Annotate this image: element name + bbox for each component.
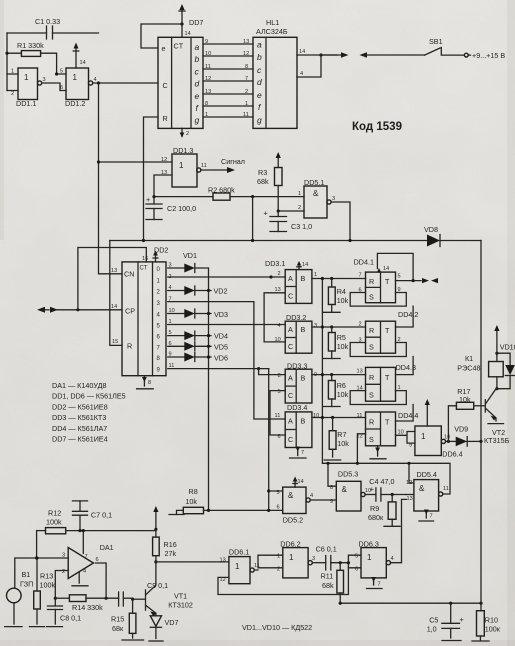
svg-text:8: 8 xyxy=(278,373,281,379)
svg-text:1: 1 xyxy=(73,73,78,82)
svg-text:e: e xyxy=(257,90,262,100)
wire DD4.4 out to DD6.4 inputs xyxy=(396,432,415,444)
power pin of DD2 xyxy=(153,251,158,262)
wire DD7 R to reset bus xyxy=(144,117,159,241)
svg-text:9: 9 xyxy=(330,499,333,505)
svg-text:CP: CP xyxy=(125,307,135,316)
svg-text:К1: К1 xyxy=(465,354,473,363)
svg-text:68k: 68k xyxy=(322,581,334,590)
transistor VT1 xyxy=(146,562,193,616)
svg-text:5: 5 xyxy=(355,554,358,560)
wire bus down to DD2 R xyxy=(110,241,122,346)
svg-text:S: S xyxy=(369,435,374,444)
diode VD7 xyxy=(149,613,178,641)
svg-text:3: 3 xyxy=(312,556,315,562)
svg-text:8: 8 xyxy=(245,64,248,70)
svg-text:13: 13 xyxy=(357,369,363,375)
svg-text:КТ3102: КТ3102 xyxy=(168,601,193,610)
svg-text:10: 10 xyxy=(444,435,450,441)
svg-text:&: & xyxy=(419,484,425,493)
svg-text:1,0: 1,0 xyxy=(427,625,437,634)
wire row DD3.2 out to DD4.2 R xyxy=(312,326,366,328)
display HL1 АЛС324Б xyxy=(253,18,297,128)
svg-text:2: 2 xyxy=(278,271,281,277)
svg-text:13: 13 xyxy=(205,89,211,95)
svg-text:DD5.2: DD5.2 xyxy=(283,516,303,525)
op-amp DA1 xyxy=(62,529,114,579)
svg-text:DD3.4: DD3.4 xyxy=(287,403,307,412)
svg-text:13: 13 xyxy=(407,496,413,502)
svg-text:VD7: VD7 xyxy=(165,618,179,627)
svg-text:4: 4 xyxy=(391,556,394,562)
resistor R9 xyxy=(368,495,400,527)
diode VD4 xyxy=(168,331,228,340)
wire DD6.1 lower input loop xyxy=(218,568,348,595)
svg-text:АЛС324Б: АЛС324Б xyxy=(256,27,288,36)
svg-text:R: R xyxy=(369,373,374,382)
svg-text:DA1: DA1 xyxy=(100,543,114,552)
svg-text:7: 7 xyxy=(245,76,248,82)
node R1/C1 junction xyxy=(5,52,8,55)
svg-text:14: 14 xyxy=(80,60,86,66)
power arrow above R16 xyxy=(153,506,158,512)
wire DD4.3 S feedback loop xyxy=(350,391,406,405)
svg-text:10: 10 xyxy=(398,430,404,436)
svg-text:10k: 10k xyxy=(337,296,349,305)
svg-text:C1 0.33: C1 0.33 xyxy=(35,17,60,26)
diode VD8 xyxy=(424,225,481,247)
svg-text:CN: CN xyxy=(124,270,134,279)
capacitor C9 xyxy=(119,581,169,606)
inverter DD1.1 xyxy=(7,68,46,108)
svg-text:d: d xyxy=(257,77,262,87)
svg-text:3: 3 xyxy=(43,77,46,83)
svg-text:9: 9 xyxy=(409,443,412,449)
svg-text:b: b xyxy=(257,52,262,62)
svg-text:DD4 — К561ЛА7: DD4 — К561ЛА7 xyxy=(52,424,107,433)
svg-text:14: 14 xyxy=(185,31,191,37)
svg-text:ГЗП: ГЗП xyxy=(20,580,33,589)
svg-text:R7: R7 xyxy=(337,430,346,439)
svg-text:5: 5 xyxy=(278,389,281,395)
counter DD2 xyxy=(111,246,168,376)
wire DA1 out down to R14/C9 row xyxy=(96,563,107,598)
capacitor C3 xyxy=(264,209,313,232)
svg-text:R3: R3 xyxy=(258,168,267,177)
svg-text:6: 6 xyxy=(96,557,99,563)
svg-text:R14 330k: R14 330k xyxy=(72,603,103,612)
svg-text:VD5: VD5 xyxy=(214,343,228,352)
node A (osc out) xyxy=(97,81,100,84)
wire DD4.1 out with break arrows xyxy=(396,280,422,282)
power pin 14 of DD7 xyxy=(179,4,191,37)
gate DD6.2 xyxy=(277,540,315,578)
svg-text:DD3 — К561КТ3: DD3 — К561КТ3 xyxy=(52,413,106,422)
diode VD3 xyxy=(168,309,228,319)
svg-text:16: 16 xyxy=(142,256,148,262)
svg-text:C9 0,1: C9 0,1 xyxy=(147,581,168,590)
resistor R6 xyxy=(324,375,349,407)
svg-text:DD5.4: DD5.4 xyxy=(417,470,437,479)
svg-text:B: B xyxy=(301,374,306,383)
svg-text:В1: В1 xyxy=(22,570,31,579)
wire DD5.4 upper input from bus xyxy=(409,463,414,483)
svg-text:R: R xyxy=(127,342,132,351)
wire E-loop to supply xyxy=(141,24,182,48)
svg-text:R: R xyxy=(369,418,374,427)
wire C-chain DD3.1 to DD3.2 xyxy=(264,293,285,342)
svg-text:C: C xyxy=(288,292,293,301)
wire row DD3.1 out to DD4.1 R xyxy=(312,278,366,280)
svg-text:R: R xyxy=(369,277,374,286)
svg-text:5: 5 xyxy=(398,274,401,280)
wire R3 to DD5.1 pin2 xyxy=(278,210,304,212)
svg-text:S: S xyxy=(369,293,374,302)
svg-text:5: 5 xyxy=(277,490,280,496)
svg-text:T: T xyxy=(385,373,390,382)
svg-text:R: R xyxy=(369,326,374,335)
svg-text:11: 11 xyxy=(275,413,281,419)
ground below C3 xyxy=(270,231,287,233)
gate DD5.2 xyxy=(277,487,314,524)
svg-text:A: A xyxy=(288,417,293,426)
svg-text:13: 13 xyxy=(243,39,249,45)
svg-text:R9: R9 xyxy=(370,504,379,513)
power pin 14 of DD5.2 xyxy=(293,477,304,488)
svg-text:C5: C5 xyxy=(429,616,438,625)
svg-text:7: 7 xyxy=(359,273,362,279)
capacitor C5 xyxy=(427,603,464,640)
svg-text:2: 2 xyxy=(298,205,301,211)
svg-text:10k: 10k xyxy=(337,439,349,448)
svg-text:C: C xyxy=(288,342,293,351)
switch DD3.4 xyxy=(275,403,320,448)
svg-text:Код 1539: Код 1539 xyxy=(352,121,402,133)
resistor R14 xyxy=(55,595,118,612)
svg-text:DD5.3: DD5.3 xyxy=(338,470,358,479)
wire right rail down xyxy=(480,241,482,604)
capacitor C8 xyxy=(47,598,82,626)
svg-text:R15: R15 xyxy=(111,615,124,624)
svg-text:DD2 — К561ИЕ8: DD2 — К561ИЕ8 xyxy=(52,402,108,411)
resistor R8 xyxy=(169,487,283,515)
ground pin 7 of DD6.3 xyxy=(367,577,383,589)
microphone B1 xyxy=(5,558,68,627)
svg-text:C7 0,1: C7 0,1 xyxy=(91,511,112,520)
wire row3 (out 3) to DD3.4 A xyxy=(168,302,285,419)
svg-text:2: 2 xyxy=(245,89,248,95)
svg-text:&: & xyxy=(342,485,348,494)
svg-text:1: 1 xyxy=(179,161,184,170)
wire DD4.2 out link up xyxy=(396,306,414,327)
wire pin13 xyxy=(154,175,172,204)
ground pin of DD4.4 xyxy=(370,446,386,459)
svg-text:+9...+15 В: +9...+15 В xyxy=(472,51,505,60)
svg-text:T: T xyxy=(385,277,390,286)
svg-text:6: 6 xyxy=(277,505,280,511)
wire row9 (out 9) to DD3.3 A and DD5.2 xyxy=(168,368,269,370)
svg-text:S: S xyxy=(369,343,374,352)
diode VD9 xyxy=(454,425,482,447)
svg-text:1: 1 xyxy=(235,562,240,571)
wire break arrows xyxy=(321,54,341,56)
svg-text:DD7 — К561ИЕ4: DD7 — К561ИЕ4 xyxy=(52,435,108,444)
wire DD4.1 top loop xyxy=(377,253,413,280)
wire DD4.3 out link up xyxy=(396,357,414,375)
svg-text:DD3.1: DD3.1 xyxy=(265,259,285,268)
diode VD5 xyxy=(168,342,228,352)
ground below C2 xyxy=(146,219,162,221)
svg-text:14: 14 xyxy=(302,262,308,268)
wire DD6.1 out to DD6.2 inputs xyxy=(254,555,283,570)
svg-text:T: T xyxy=(385,418,390,427)
svg-text:VD2: VD2 xyxy=(214,287,228,296)
resistor R15 xyxy=(111,599,144,640)
svg-text:B: B xyxy=(301,274,306,283)
wire DD4.1 S feedback loop xyxy=(350,293,406,307)
output digits xyxy=(157,267,161,374)
wire DD1.1 out to DD1.2 pin 6 xyxy=(42,83,66,91)
trigger DD4.1 xyxy=(354,258,401,303)
svg-text:HL1: HL1 xyxy=(266,18,279,27)
svg-text:R11: R11 xyxy=(321,572,334,581)
output pin numbers xyxy=(169,263,175,370)
trigger DD4.2 xyxy=(359,310,419,353)
wire C9 to VT1 base xyxy=(133,598,145,600)
diode VD2 xyxy=(168,286,228,296)
svg-text:VD1: VD1 xyxy=(183,251,197,260)
svg-text:3: 3 xyxy=(332,196,335,202)
svg-text:2: 2 xyxy=(359,322,362,328)
svg-text:VD1...VD10 — КД522: VD1...VD10 — КД522 xyxy=(242,623,312,632)
ground pin 8 of DD2 xyxy=(137,376,154,389)
svg-text:CT: CT xyxy=(174,42,184,51)
svg-text:R8: R8 xyxy=(189,487,198,496)
wire C4 node to DD5.4 lower input xyxy=(406,494,414,496)
svg-text:+: + xyxy=(370,485,374,494)
svg-text:B: B xyxy=(301,325,306,334)
switch DD3.3 xyxy=(278,362,318,404)
svg-text:РЭС48: РЭС48 xyxy=(457,364,480,373)
svg-text:DD1, DD6 — К561ЛЕ5: DD1, DD6 — К561ЛЕ5 xyxy=(52,392,126,401)
svg-text:1: 1 xyxy=(367,553,372,562)
wire bottom bus xyxy=(340,602,481,604)
svg-text:C3 1,0: C3 1,0 xyxy=(291,222,312,231)
svg-text:3: 3 xyxy=(314,323,317,329)
svg-text:4: 4 xyxy=(94,77,97,83)
svg-text:a: a xyxy=(195,42,200,52)
resistor R1 xyxy=(7,41,66,74)
svg-text:A: A xyxy=(288,274,293,283)
capacitor C6 xyxy=(312,545,350,571)
svg-text:DD4.2: DD4.2 xyxy=(398,310,418,319)
node signal output xyxy=(201,157,245,173)
svg-text:R: R xyxy=(163,114,168,123)
wire R12 left down to input xyxy=(36,531,38,558)
capacitor C2 xyxy=(146,195,196,220)
svg-text:7: 7 xyxy=(378,582,381,588)
wire row1 (out 1) to DD3.1 A xyxy=(168,276,285,278)
svg-text:R1 330k: R1 330k xyxy=(17,41,44,50)
svg-text:100к: 100к xyxy=(485,625,501,634)
svg-text:100k: 100k xyxy=(40,581,56,590)
svg-text:DA1 — К140УД8: DA1 — К140УД8 xyxy=(52,381,106,390)
svg-text:11: 11 xyxy=(243,112,249,118)
svg-text:6: 6 xyxy=(278,434,281,440)
svg-text:+: + xyxy=(264,209,268,218)
svg-text:C2 100,0: C2 100,0 xyxy=(167,204,196,213)
capacitor C1 xyxy=(7,17,99,39)
wire C-chain DD3.3 to DD3.4 xyxy=(270,391,285,435)
svg-text:4: 4 xyxy=(310,493,313,499)
svg-text:9: 9 xyxy=(205,39,208,45)
svg-text:13: 13 xyxy=(220,558,226,564)
svg-text:4: 4 xyxy=(278,323,281,329)
svg-text:+: + xyxy=(460,615,464,624)
wire inverting input down to R14 node xyxy=(55,571,68,599)
svg-text:DD4.1: DD4.1 xyxy=(354,258,374,267)
capacitor C7 xyxy=(73,501,113,532)
trigger DD4.4 xyxy=(357,411,419,446)
gate DD6.4 xyxy=(409,426,463,459)
svg-text:R16: R16 xyxy=(164,540,177,549)
wire R16 node to DD6.1 input xyxy=(156,561,229,563)
gate DD5.3 xyxy=(330,470,371,512)
resistor R17 xyxy=(448,387,484,441)
svg-text:VD6: VD6 xyxy=(214,354,228,363)
svg-text:DD1.2: DD1.2 xyxy=(65,99,85,108)
svg-text:7: 7 xyxy=(85,554,88,560)
wire DD4.4 S to bus xyxy=(357,434,365,464)
output wires DD7 to HL1 (a-g) xyxy=(195,39,254,125)
power arrow above DD6.4 xyxy=(426,403,428,426)
pin 2 of DD7 (bottom) xyxy=(180,128,190,137)
svg-text:КТ315Б: КТ315Б xyxy=(484,436,510,445)
svg-text:14: 14 xyxy=(299,49,305,55)
ground pin 4 of DA1 xyxy=(72,572,88,586)
inverter DD1.3 xyxy=(161,146,207,187)
svg-text:68к: 68к xyxy=(112,624,124,633)
svg-text:C: C xyxy=(288,435,293,444)
svg-text:6: 6 xyxy=(60,85,63,91)
svg-text:11: 11 xyxy=(357,413,363,419)
resistor R10 xyxy=(472,603,501,641)
svg-text:Сигнал: Сигнал xyxy=(221,157,245,166)
svg-text:14: 14 xyxy=(383,266,389,272)
gate DD5.4 xyxy=(406,470,449,511)
svg-text:5: 5 xyxy=(60,69,63,75)
power arrow above R3 xyxy=(277,156,279,168)
svg-text:2: 2 xyxy=(186,131,189,137)
svg-text:10: 10 xyxy=(275,337,281,343)
counter DD7 xyxy=(158,18,203,128)
svg-text:VD9: VD9 xyxy=(454,425,468,434)
svg-text:VD8: VD8 xyxy=(424,225,438,234)
svg-text:e: e xyxy=(195,91,200,101)
resistor R11 xyxy=(321,563,344,604)
svg-text:10: 10 xyxy=(205,51,211,57)
svg-text:CT: CT xyxy=(140,266,148,272)
wire DD4.2 S feedback loop xyxy=(350,343,406,357)
svg-text:7: 7 xyxy=(301,450,304,456)
gate DD6.1 xyxy=(220,548,260,584)
gate DD5.1 xyxy=(298,178,335,218)
ground below VT2 emitter xyxy=(488,423,504,425)
wire DD5.3 upper input to bus xyxy=(328,463,336,486)
wire DD6.4 out xyxy=(446,440,456,442)
svg-text:B: B xyxy=(301,417,306,426)
svg-text:10k: 10k xyxy=(337,390,349,399)
svg-text:2: 2 xyxy=(11,91,14,97)
svg-text:DD6.1: DD6.1 xyxy=(229,548,249,557)
wire DD1.2 out to DD7 C xyxy=(93,82,158,84)
svg-text:1: 1 xyxy=(298,191,301,197)
wire DD6.3 out up to DD5.4 input xyxy=(391,499,407,562)
svg-text:&: & xyxy=(313,189,319,198)
svg-text:+: + xyxy=(146,195,150,204)
switch DD3.1 xyxy=(265,259,317,303)
svg-text:S: S xyxy=(369,391,374,400)
svg-text:12: 12 xyxy=(243,51,249,57)
wire row DD3.3 out to DD4.3 R xyxy=(312,374,366,376)
diode VD6 xyxy=(168,353,228,363)
resistor R12 xyxy=(37,509,156,534)
svg-text:VD10: VD10 xyxy=(500,343,515,352)
svg-text:DD7: DD7 xyxy=(189,18,203,27)
svg-text:11: 11 xyxy=(201,163,207,169)
wire vertical x98.5 down to DD1.3 and DD2 CN xyxy=(99,83,123,274)
svg-text:1: 1 xyxy=(245,101,248,107)
svg-text:DD6.4: DD6.4 xyxy=(442,450,462,459)
svg-text:27k: 27k xyxy=(165,549,177,558)
wire R2 node down to reset bus xyxy=(252,197,254,241)
svg-text:13: 13 xyxy=(111,268,117,274)
svg-text:C6 0,1: C6 0,1 xyxy=(316,545,337,554)
svg-text:1: 1 xyxy=(314,272,317,278)
svg-text:C8 0,1: C8 0,1 xyxy=(60,614,81,623)
svg-text:A: A xyxy=(288,325,293,334)
wire CP branch to pin16 xyxy=(78,248,146,310)
svg-text:R4: R4 xyxy=(337,287,346,296)
svg-text:10k: 10k xyxy=(337,342,349,351)
svg-text:15: 15 xyxy=(112,339,118,345)
svg-text:g: g xyxy=(195,115,200,125)
svg-text:R12: R12 xyxy=(48,509,61,518)
svg-text:b: b xyxy=(195,54,200,64)
svg-text:68k: 68k xyxy=(257,177,269,186)
wire reset bus xyxy=(110,240,427,242)
svg-text:SB1: SB1 xyxy=(429,37,443,46)
svg-text:DD4.4: DD4.4 xyxy=(398,411,418,420)
svg-text:14: 14 xyxy=(298,479,304,485)
svg-text:1: 1 xyxy=(277,554,280,560)
diode VD10 xyxy=(497,343,515,389)
power pin 14 of DD1.2 xyxy=(73,43,86,69)
resistor R4 xyxy=(324,279,349,313)
svg-text:R5: R5 xyxy=(337,333,346,342)
svg-text:12: 12 xyxy=(205,76,211,82)
wire DD5.1 out down to bus xyxy=(331,202,350,241)
wire pin12 xyxy=(99,161,173,163)
trigger DD4.3 xyxy=(357,363,416,401)
svg-text:10k: 10k xyxy=(185,497,197,506)
ground pin 7 of DD3.4 xyxy=(290,447,307,459)
svg-text:DD1.1: DD1.1 xyxy=(16,99,36,108)
svg-text:13: 13 xyxy=(275,287,281,293)
svg-text:&: & xyxy=(288,491,294,500)
inverter DD1.2 xyxy=(60,68,97,108)
svg-text:VD3: VD3 xyxy=(214,310,228,319)
